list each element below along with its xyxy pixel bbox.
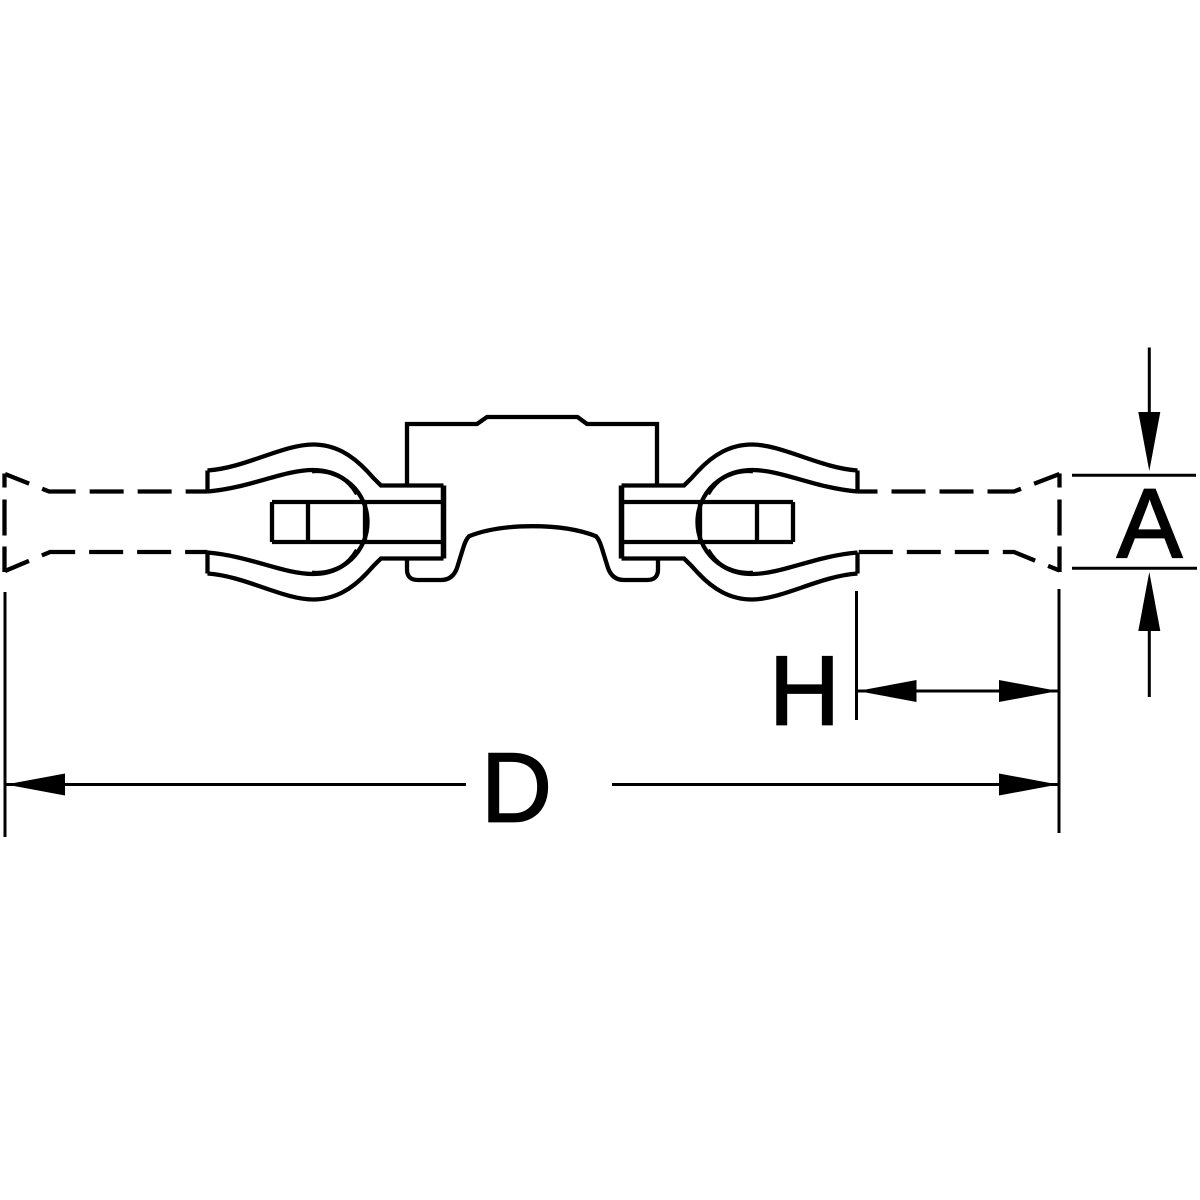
dimension D right arrowhead <box>999 774 1058 796</box>
right rod top (dashed) <box>858 474 1060 492</box>
right pin top line <box>622 500 794 504</box>
left ball <box>312 471 368 573</box>
left collar right edge (bold) <box>441 486 447 559</box>
central body outline <box>407 417 657 486</box>
left yoke lower wing inner curve <box>208 550 358 574</box>
left taper and rod bottom (dashed) <box>5 552 208 571</box>
left taper and rod top (dashed) <box>5 474 208 492</box>
right pin bottom line <box>622 540 794 544</box>
dimension H/D right extension line <box>1058 589 1061 833</box>
right ball <box>697 471 753 573</box>
svg-text:D: D <box>481 733 552 843</box>
dimension H right arrowhead <box>999 680 1058 702</box>
left pin right edge <box>363 502 367 542</box>
dimension H left arrowhead <box>858 680 917 702</box>
svg-text:A: A <box>1117 469 1183 579</box>
dimension A upper arrowhead <box>1138 412 1160 471</box>
dimension A lower arrow line <box>1148 631 1151 697</box>
right rod bottom (dashed) <box>858 552 1060 571</box>
right pin right edge <box>791 502 795 542</box>
left pin left edge <box>270 502 274 542</box>
left yoke lower wing outer curve <box>208 559 444 600</box>
dimension D line right segment <box>612 783 1058 786</box>
left pin bottom line <box>272 540 444 544</box>
dimension D line left segment <box>6 783 466 786</box>
right flared tip (dashed) <box>1057 474 1061 573</box>
left yoke upper wing outer curve <box>208 445 444 486</box>
right yoke lower wing outer curve <box>622 559 858 600</box>
right pin divider <box>755 502 759 542</box>
left pin top line <box>272 500 444 504</box>
dimension D left extension line <box>4 592 7 837</box>
right yoke upper wing inner curve <box>708 470 858 494</box>
right yoke upper wing outer curve <box>622 445 858 486</box>
left flared tip (dashed) <box>2 474 6 573</box>
right pin left edge <box>698 502 702 542</box>
dimension A bottom extension line <box>1072 567 1197 570</box>
left yoke upper wing inner curve <box>208 470 358 494</box>
dimension D left arrowhead <box>6 774 65 796</box>
central body bottom with feet and arch <box>407 526 658 580</box>
dimension A upper arrow line <box>1148 348 1151 415</box>
right yoke upper stub <box>855 471 859 492</box>
left pin divider <box>306 502 310 542</box>
right collar left edge (bold) <box>619 486 625 559</box>
dimension A lower arrowhead <box>1138 572 1160 631</box>
dimension A top extension line <box>1072 474 1196 477</box>
dimension H line <box>858 690 1059 693</box>
right yoke lower stub <box>855 553 859 574</box>
dimension H left extension line <box>855 591 858 720</box>
left yoke lower stub <box>205 553 209 574</box>
svg-text:H: H <box>769 636 840 746</box>
right yoke lower wing inner curve <box>708 550 858 574</box>
left yoke upper stub <box>205 471 209 492</box>
